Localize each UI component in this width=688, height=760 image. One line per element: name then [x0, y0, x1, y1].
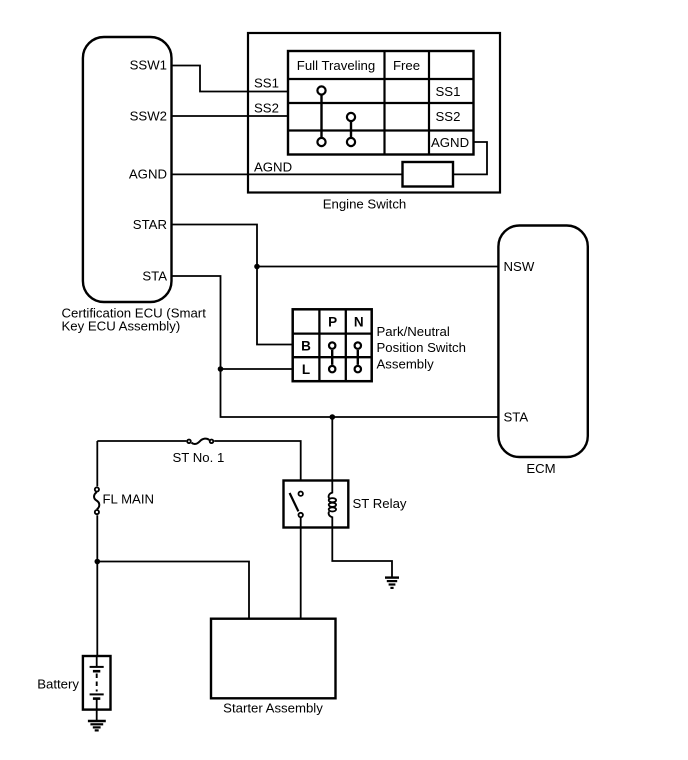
svg-text:SSW1: SSW1: [130, 58, 167, 73]
wire STA to ST relay coil: [331, 417, 333, 481]
AGND jumper rectangle: [403, 162, 454, 187]
svg-text:SS1: SS1: [254, 76, 279, 91]
svg-text:STAR: STAR: [133, 217, 167, 232]
svg-text:P: P: [328, 315, 337, 330]
battery cells: [90, 656, 104, 710]
svg-text:ST No. 1: ST No. 1: [173, 450, 225, 465]
junction dot battery/starter: [95, 559, 101, 565]
fuse ST No. 1: [187, 439, 213, 444]
wire SSW1 to SS1: [172, 66, 289, 92]
wire ST No.1 to relay switch: [214, 441, 301, 481]
svg-text:NSW: NSW: [504, 259, 535, 274]
svg-text:Full Traveling: Full Traveling: [297, 58, 375, 73]
svg-text:Park/Neutral: Park/Neutral: [377, 324, 450, 339]
wire FL MAIN to battery: [96, 515, 98, 656]
park/neutral position switch table: [293, 309, 372, 381]
svg-text:FL MAIN: FL MAIN: [103, 492, 155, 507]
label Park/Neutral Position Switch Assembly: [377, 324, 466, 372]
svg-text:Position Switch: Position Switch: [377, 340, 466, 355]
ground (ST relay): [385, 578, 399, 588]
wire relay coil to ground: [332, 528, 392, 577]
svg-text:L: L: [302, 362, 310, 377]
wire NSW branch: [257, 266, 498, 268]
wire relay switch to starter: [300, 518, 302, 619]
svg-text:AGND: AGND: [431, 135, 469, 150]
svg-text:SS2: SS2: [254, 101, 279, 116]
ECM box: [498, 226, 587, 458]
svg-text:Key ECU Assembly): Key ECU Assembly): [62, 319, 181, 334]
junction dot STA/coil: [330, 414, 336, 420]
wire STA to ECM STA: [172, 276, 499, 417]
relay switch: [290, 492, 303, 518]
svg-text:SS2: SS2: [436, 109, 461, 124]
ST Relay box: [284, 481, 349, 528]
park/neutral contact P: [329, 342, 335, 372]
ground (battery): [88, 721, 106, 730]
label Certification ECU (Smart Key ECU Assembly): [62, 306, 207, 334]
fusible link FL MAIN: [94, 487, 99, 514]
wire branch to L: [221, 368, 293, 370]
relay coil: [329, 481, 337, 528]
wire AGND to jumper: [172, 173, 403, 175]
svg-text:AGND: AGND: [129, 167, 167, 182]
wire down to FL MAIN: [96, 441, 98, 486]
svg-text:STA: STA: [504, 410, 529, 425]
svg-text:AGND: AGND: [254, 160, 292, 175]
wire SSW2 to SS2: [172, 115, 289, 117]
svg-text:Assembly: Assembly: [377, 356, 435, 371]
engine switch contact table: [288, 51, 474, 155]
svg-text:ST Relay: ST Relay: [353, 496, 407, 511]
svg-text:Starter Assembly: Starter Assembly: [223, 701, 323, 716]
svg-text:SSW2: SSW2: [130, 109, 167, 124]
svg-text:SS1: SS1: [436, 84, 461, 99]
svg-text:Engine Switch: Engine Switch: [323, 197, 407, 212]
svg-text:B: B: [301, 338, 311, 353]
wire battery to ground: [96, 710, 98, 720]
wire AGND cell to jumper: [453, 142, 487, 174]
svg-text:Free: Free: [393, 58, 420, 73]
wire STAR to B: [172, 225, 293, 345]
Certification ECU (Smart Key ECU Assembly) box: [83, 37, 172, 302]
Engine Switch outer box: [248, 33, 500, 193]
engine switch contact SS2 (Full Traveling column): [347, 113, 355, 146]
wire battery junction to starter: [97, 562, 249, 619]
junction dot STAR/NSW: [254, 264, 260, 270]
svg-text:N: N: [354, 315, 364, 330]
junction dot STA/L: [218, 366, 224, 372]
svg-text:ECM: ECM: [526, 461, 555, 476]
Battery box: [83, 656, 111, 710]
Starter Assembly box: [211, 619, 336, 699]
svg-text:Battery: Battery: [37, 677, 79, 692]
svg-text:STA: STA: [142, 269, 167, 284]
park/neutral contact N: [355, 342, 361, 372]
engine switch contact SS1 (Full Traveling column): [317, 86, 325, 146]
wire battery feed to ST No.1: [97, 440, 186, 442]
